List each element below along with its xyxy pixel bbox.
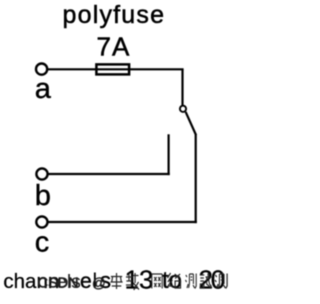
svg-text:b: b <box>35 180 51 212</box>
svg-text:e: e <box>80 270 92 293</box>
svg-text:polyfuse: polyfuse <box>63 1 166 29</box>
svg-text:a: a <box>35 73 52 105</box>
svg-text:7A: 7A <box>97 31 131 61</box>
svg-text:@: @ <box>92 275 106 290</box>
svg-text:c: c <box>35 227 50 259</box>
svg-text:CSDN: CSDN <box>38 276 79 292</box>
